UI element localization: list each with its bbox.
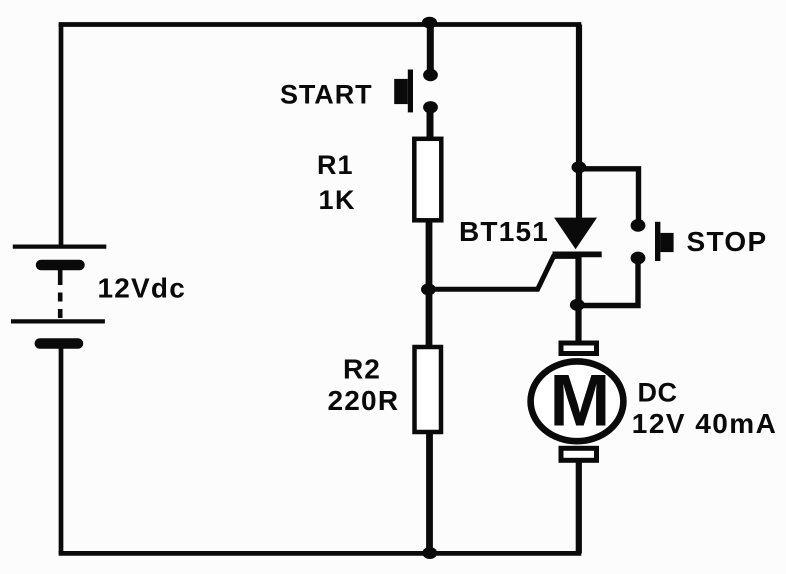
resistor R2 <box>415 347 442 432</box>
wire top rail <box>59 22 582 27</box>
svg-text:220R: 220R <box>328 385 400 416</box>
wire stop branch top horizontal <box>579 169 639 222</box>
svg-text:BT151: BT151 <box>459 216 549 247</box>
switch SW1 START push button <box>394 69 438 114</box>
svg-text:R1: R1 <box>317 150 354 180</box>
battery dashed cell link <box>58 276 63 320</box>
BT151 cathode bar <box>553 251 602 257</box>
START actuator bar <box>408 70 413 113</box>
battery plate + (top long) <box>13 245 107 249</box>
STOP top terminal dot <box>631 219 646 232</box>
wire START to R1 <box>427 107 434 140</box>
wire left rail lower (battery - lead) <box>59 344 64 554</box>
thyristor U1 BT151 <box>428 218 601 290</box>
svg-text:M: M <box>550 361 611 442</box>
node: R1/R2/gate junction <box>421 283 436 295</box>
wire from top rail to START <box>427 24 434 74</box>
motor top brush <box>561 343 597 354</box>
START top terminal dot <box>423 69 438 81</box>
svg-text:1K: 1K <box>319 185 357 215</box>
battery plate - (bottom short thick) <box>40 338 78 349</box>
resistor R1 <box>414 139 441 221</box>
STOP actuator bar <box>655 222 660 261</box>
wire R2 to bottom rail <box>426 434 433 553</box>
STOP bottom terminal dot <box>631 252 646 265</box>
svg-text:STOP: STOP <box>687 226 768 257</box>
START button cap <box>394 79 408 104</box>
battery plate - (top short thick) <box>41 260 80 271</box>
BT151 gate wire <box>428 256 577 289</box>
wire bottom rail <box>59 551 582 556</box>
node: cathode / stop branch bottom junction <box>570 299 585 311</box>
svg-text:DC: DC <box>638 378 678 408</box>
STOP button cap <box>660 233 673 252</box>
node: bottom rail / R2 junction <box>422 547 437 559</box>
svg-text:R2: R2 <box>343 353 381 384</box>
svg-text:12Vdc: 12Vdc <box>98 273 187 304</box>
wire motor to bottom rail <box>576 460 582 553</box>
BT151 triangle (anode->cathode) <box>554 218 597 250</box>
wire middle junction to R2 <box>426 289 433 348</box>
wire cathode down to motor <box>575 254 581 341</box>
wire thyristor anode from top rail <box>576 25 582 220</box>
wire stop branch bottom horizontal <box>577 258 638 306</box>
svg-text:12V 40mA: 12V 40mA <box>632 408 777 439</box>
START bottom terminal dot <box>423 101 438 113</box>
battery plate + (bottom long) <box>11 319 105 323</box>
motor bottom brush <box>561 448 597 460</box>
battery B1 12Vdc <box>11 247 106 344</box>
motor M1 <box>531 343 624 460</box>
motor body circle <box>531 361 624 441</box>
svg-text:START: START <box>280 79 373 109</box>
switch SW2 STOP push button <box>631 219 674 264</box>
node: top rail / start branch junction <box>422 17 437 29</box>
node: anode / stop branch junction <box>572 161 587 173</box>
wire R1 to middle junction <box>426 222 433 290</box>
wire left rail upper (battery + lead) <box>59 25 64 247</box>
